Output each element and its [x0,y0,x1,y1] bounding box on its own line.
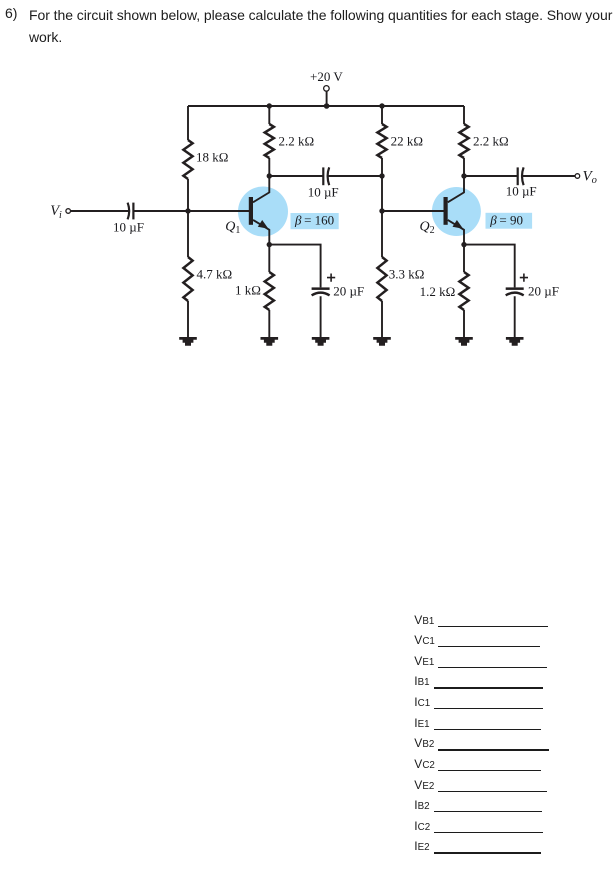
svg-text:22 kΩ: 22 kΩ [391,134,423,149]
svg-text:20 µF: 20 µF [528,284,559,299]
svg-text:Q2: Q2 [420,219,435,236]
svg-text:20 µF: 20 µF [333,283,364,298]
svg-text:2.2 kΩ: 2.2 kΩ [473,134,509,149]
svg-text:1.2 kΩ: 1.2 kΩ [420,284,456,299]
svg-text:10 µF: 10 µF [308,184,339,199]
svg-text:2.2 kΩ: 2.2 kΩ [279,134,315,149]
svg-text:β = 90: β = 90 [489,213,523,228]
svg-text:4.7 kΩ: 4.7 kΩ [197,266,233,281]
svg-text:3.3 kΩ: 3.3 kΩ [389,266,425,281]
svg-text:Q1: Q1 [225,219,240,236]
svg-text:10 µF: 10 µF [506,184,537,199]
svg-text:Vo: Vo [583,168,597,186]
svg-text:18 kΩ: 18 kΩ [196,149,228,164]
svg-text:β = 160: β = 160 [294,213,334,228]
svg-text:1 kΩ: 1 kΩ [235,283,261,298]
svg-text:+20 V: +20 V [310,69,343,84]
svg-text:10 µF: 10 µF [113,220,144,235]
svg-text:Vi: Vi [50,203,62,221]
